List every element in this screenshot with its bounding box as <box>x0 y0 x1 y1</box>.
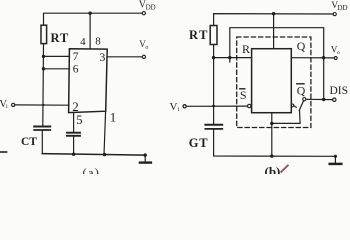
svg-text:GT: GT <box>189 136 209 150</box>
svg-text:7: 7 <box>73 51 79 63</box>
svg-text:V: V <box>170 101 178 113</box>
svg-text:Q: Q <box>297 84 306 98</box>
svg-text:CT: CT <box>21 136 37 148</box>
svg-text:6: 6 <box>73 63 79 75</box>
svg-text:(b): (b) <box>265 164 281 174</box>
svg-text:RT: RT <box>51 31 70 45</box>
svg-text:8: 8 <box>95 36 101 48</box>
svg-text:i: i <box>6 104 8 110</box>
svg-text:R: R <box>242 42 250 56</box>
svg-text:Q: Q <box>297 39 306 53</box>
svg-text:1: 1 <box>110 110 117 125</box>
svg-text:5: 5 <box>76 113 82 127</box>
svg-text:o: o <box>337 50 340 56</box>
svg-text:(a): (a) <box>83 166 101 174</box>
svg-text:DIS: DIS <box>330 85 349 97</box>
svg-text:S: S <box>240 88 247 102</box>
svg-text:o: o <box>145 45 148 51</box>
svg-text:2: 2 <box>72 99 79 114</box>
svg-text:RT: RT <box>189 28 209 42</box>
svg-text:4: 4 <box>80 36 86 48</box>
svg-text:DD: DD <box>337 4 347 12</box>
svg-text:3: 3 <box>99 50 105 64</box>
svg-text:i: i <box>178 107 180 113</box>
svg-text:DD: DD <box>146 4 156 12</box>
